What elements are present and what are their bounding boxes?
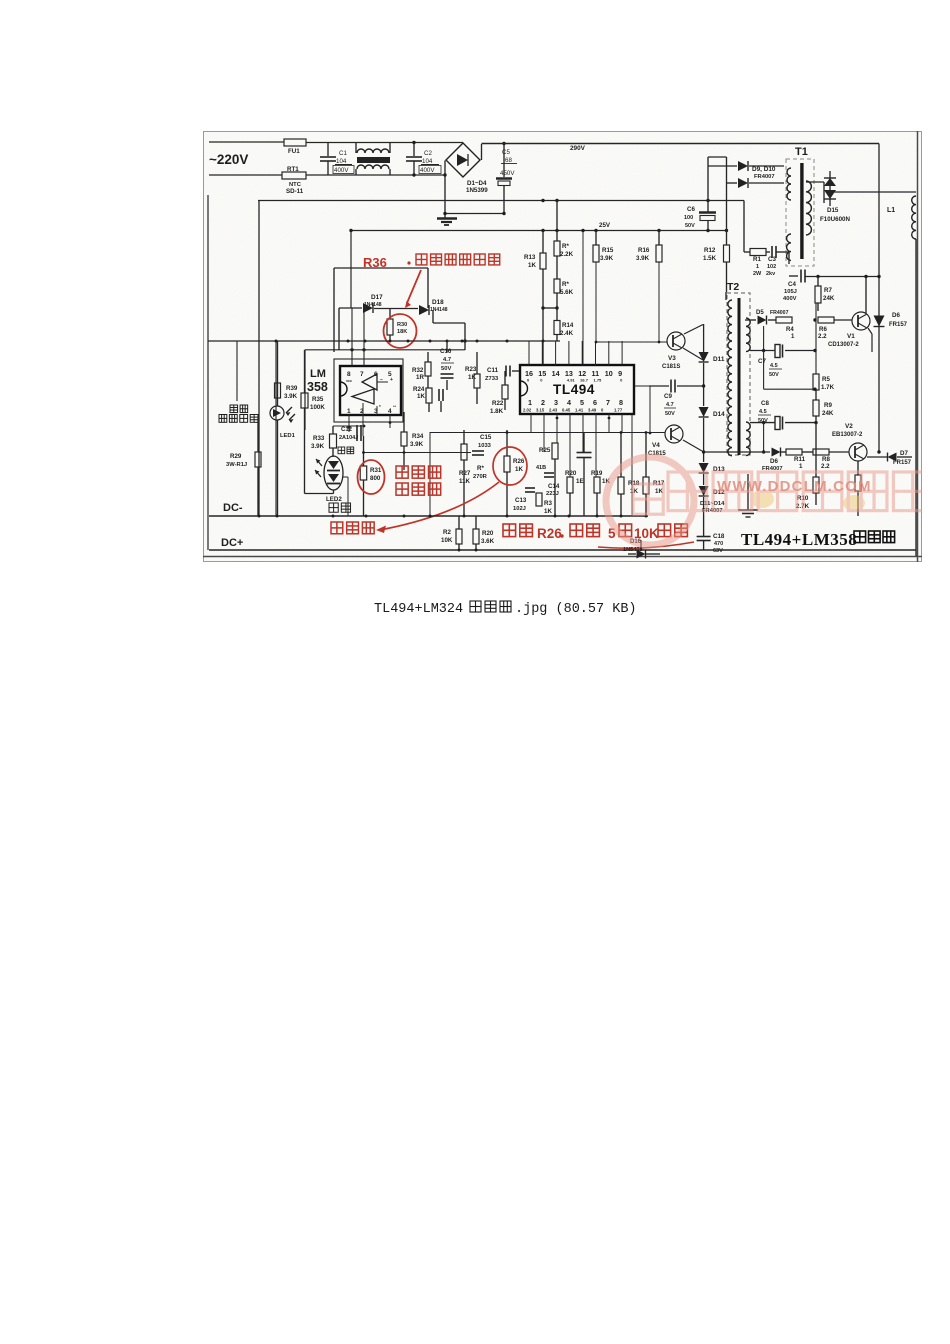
svg-text:C7: C7 [758, 358, 766, 365]
svg-text:RT1: RT1 [287, 166, 299, 173]
svg-text:D9, D10: D9, D10 [752, 166, 776, 173]
svg-text:D18: D18 [432, 299, 444, 306]
svg-text:R6: R6 [819, 326, 827, 333]
svg-text:R2: R2 [443, 529, 451, 536]
svg-text:TL494+LM324: TL494+LM324 [374, 602, 463, 617]
svg-text:.jpg (80.57 KB): .jpg (80.57 KB) [515, 602, 637, 617]
svg-text:R31: R31 [370, 467, 382, 474]
svg-text:C16: C16 [440, 348, 452, 355]
svg-text:1N5399: 1N5399 [466, 187, 488, 194]
svg-text:100K: 100K [310, 404, 325, 411]
svg-text:L1: L1 [887, 207, 895, 214]
svg-text:1: 1 [799, 463, 803, 470]
svg-text:50V: 50V [685, 223, 695, 229]
svg-text:DC-: DC- [223, 502, 243, 514]
svg-text:C4: C4 [788, 281, 796, 288]
svg-text:C6: C6 [687, 206, 695, 213]
svg-text:WWW.DDCLM.COM: WWW.DDCLM.COM [717, 478, 872, 495]
svg-text:D14: D14 [713, 411, 725, 418]
svg-text:DC+: DC+ [221, 537, 243, 549]
svg-text:1R: 1R [416, 374, 424, 381]
svg-text:R9: R9 [824, 402, 832, 409]
svg-text:R15: R15 [602, 247, 614, 254]
svg-text:R14: R14 [562, 322, 574, 329]
svg-text:R34: R34 [412, 433, 424, 440]
svg-text:R4: R4 [786, 327, 794, 333]
svg-text:18K: 18K [397, 329, 407, 335]
svg-text:3.15: 3.15 [536, 408, 545, 413]
svg-text:0.45: 0.45 [562, 408, 571, 413]
svg-text:1K: 1K [468, 374, 476, 381]
svg-text:800: 800 [370, 475, 381, 482]
svg-text:R26: R26 [513, 458, 525, 465]
svg-text:LM: LM [310, 368, 326, 380]
svg-text:1.77: 1.77 [614, 408, 623, 413]
svg-text:R25: R25 [539, 447, 551, 454]
svg-text:1K: 1K [515, 466, 523, 473]
svg-text:400V: 400V [783, 296, 797, 302]
svg-text:4.7: 4.7 [666, 402, 674, 408]
svg-text:3.9K: 3.9K [284, 393, 298, 400]
svg-text:41B: 41B [536, 465, 546, 471]
svg-text:R20: R20 [482, 530, 494, 537]
svg-text:R5: R5 [822, 376, 830, 383]
svg-text:TL494: TL494 [553, 382, 595, 397]
svg-text:D5: D5 [756, 310, 764, 316]
svg-text:R39: R39 [286, 385, 298, 392]
svg-text:1.75: 1.75 [594, 378, 603, 383]
svg-text:104: 104 [336, 158, 347, 165]
svg-text:1.5K: 1.5K [703, 255, 717, 262]
svg-text:4.7: 4.7 [443, 357, 451, 363]
svg-text:2.4K: 2.4K [560, 330, 574, 337]
svg-text:D11: D11 [713, 356, 725, 363]
svg-text:R16: R16 [638, 247, 650, 254]
svg-text:R13: R13 [524, 254, 536, 261]
svg-text:14: 14 [552, 369, 560, 378]
svg-text:4.5: 4.5 [759, 409, 767, 415]
svg-text:63V: 63V [713, 548, 723, 554]
svg-text:3.6K: 3.6K [481, 538, 495, 545]
svg-text:T1: T1 [795, 146, 808, 158]
svg-text:C9: C9 [664, 393, 672, 400]
svg-text:8: 8 [619, 398, 623, 407]
svg-text:R*: R* [477, 465, 484, 472]
svg-text:3: 3 [554, 398, 558, 407]
svg-text:C2: C2 [424, 150, 432, 157]
svg-text:2.2: 2.2 [818, 333, 827, 340]
svg-text:2.02: 2.02 [523, 408, 532, 413]
svg-text:R20: R20 [565, 470, 577, 477]
svg-text:5: 5 [580, 398, 584, 407]
svg-text:4.91: 4.91 [567, 378, 576, 383]
svg-text:C5: C5 [502, 149, 510, 156]
svg-text:TL494+LM358: TL494+LM358 [741, 530, 857, 549]
svg-text:R7: R7 [824, 287, 832, 294]
svg-text:1.41: 1.41 [575, 408, 584, 413]
svg-text:EB13007-2: EB13007-2 [832, 432, 863, 438]
svg-text:*: * [379, 404, 381, 409]
svg-text:R26: R26 [537, 526, 562, 541]
svg-text:450V: 450V [500, 170, 515, 177]
svg-text:3.9K: 3.9K [410, 441, 424, 448]
svg-text:FR157: FR157 [889, 322, 908, 328]
svg-text:C3: C3 [768, 256, 776, 263]
svg-text:2: 2 [541, 398, 545, 407]
svg-text:104: 104 [422, 158, 433, 165]
svg-text:400V: 400V [334, 167, 349, 174]
svg-text:2A104J: 2A104J [339, 435, 358, 441]
svg-text:R24: R24 [413, 386, 425, 393]
svg-text:270R: 270R [473, 474, 488, 480]
svg-text:24K: 24K [822, 410, 834, 417]
svg-text:6: 6 [593, 398, 597, 407]
svg-text:R*: R* [562, 281, 569, 288]
svg-text:D7: D7 [900, 450, 908, 457]
svg-text:F10U600N: F10U600N [820, 216, 850, 223]
svg-text:3W-R1J: 3W-R1J [226, 462, 247, 468]
svg-text:FR4007: FR4007 [770, 310, 789, 316]
svg-text:4: 4 [388, 408, 392, 415]
svg-text:C181S: C181S [662, 364, 680, 370]
svg-text:C18: C18 [713, 533, 725, 540]
svg-text:R19: R19 [591, 470, 603, 477]
svg-text:1K: 1K [544, 508, 552, 515]
svg-text:SD-11: SD-11 [286, 188, 304, 195]
svg-text:D1~D4: D1~D4 [467, 180, 487, 187]
svg-text:3.9K: 3.9K [600, 255, 614, 262]
svg-text:1K: 1K [417, 393, 425, 400]
svg-text:R27: R27 [459, 470, 471, 477]
svg-text:**: ** [393, 404, 397, 409]
svg-text:223J: 223J [546, 491, 559, 497]
svg-text:25V: 25V [599, 222, 611, 229]
svg-text:26.7: 26.7 [580, 378, 589, 383]
svg-text:2.2: 2.2 [821, 463, 830, 470]
svg-text:R12: R12 [704, 247, 716, 254]
svg-text:2kv: 2kv [766, 271, 776, 277]
svg-text:3.9K: 3.9K [636, 255, 650, 262]
svg-text:3.49: 3.49 [588, 408, 597, 413]
svg-text:11K: 11K [459, 478, 471, 485]
svg-text:10: 10 [605, 369, 613, 378]
svg-text:R*: R* [562, 243, 569, 250]
svg-text:C15: C15 [480, 434, 492, 441]
svg-text:C14: C14 [548, 483, 560, 490]
svg-text:358: 358 [307, 380, 328, 394]
svg-text:FR4007: FR4007 [754, 174, 775, 180]
svg-text:50V: 50V [441, 366, 451, 372]
svg-text:7: 7 [360, 371, 364, 378]
svg-text:R3: R3 [544, 500, 552, 507]
svg-text:R1: R1 [753, 256, 761, 263]
svg-text:470: 470 [714, 541, 723, 547]
svg-text:R32: R32 [412, 367, 424, 374]
svg-text:1.8K: 1.8K [490, 408, 504, 415]
svg-text:1033: 1033 [478, 443, 492, 449]
svg-text:R29: R29 [230, 453, 242, 460]
svg-text:R11: R11 [794, 456, 806, 463]
svg-text:400V: 400V [420, 167, 435, 174]
svg-text:R22: R22 [492, 400, 504, 407]
svg-text:68: 68 [505, 157, 512, 164]
svg-text:1K: 1K [528, 262, 536, 269]
svg-text:2W: 2W [753, 271, 762, 277]
svg-text:FU1: FU1 [288, 148, 300, 155]
svg-text:105J: 105J [784, 289, 797, 295]
svg-text:CD13007-2: CD13007-2 [828, 342, 859, 348]
svg-text:LED2: LED2 [326, 496, 342, 503]
svg-text:R8: R8 [822, 456, 830, 463]
svg-text:2.43: 2.43 [549, 408, 558, 413]
svg-text:100: 100 [684, 215, 693, 221]
svg-text:V4: V4 [652, 442, 660, 449]
svg-text:102J: 102J [513, 506, 526, 512]
svg-text:C13: C13 [515, 497, 527, 504]
svg-text:R33: R33 [313, 435, 325, 442]
svg-text:R23: R23 [465, 366, 477, 373]
svg-text:V1: V1 [847, 333, 855, 340]
svg-text:LED1: LED1 [280, 433, 296, 439]
svg-text:1: 1 [528, 398, 532, 407]
svg-text:D6: D6 [770, 458, 778, 465]
svg-text:R35: R35 [312, 396, 324, 403]
svg-text:FR157: FR157 [893, 460, 912, 466]
svg-text:4.5: 4.5 [770, 363, 778, 369]
svg-text:24K: 24K [823, 295, 835, 302]
svg-text:2.2K: 2.2K [560, 251, 574, 258]
svg-text:102: 102 [767, 264, 776, 270]
svg-text:V2: V2 [845, 423, 853, 430]
svg-text:Z733: Z733 [485, 376, 499, 382]
svg-text:50V: 50V [665, 411, 675, 417]
svg-text:C1: C1 [339, 150, 347, 157]
svg-text:~220V: ~220V [209, 152, 248, 167]
svg-text:7: 7 [606, 398, 610, 407]
svg-text:T2: T2 [727, 281, 739, 293]
svg-text:50V: 50V [769, 372, 779, 378]
svg-text:R30: R30 [397, 322, 407, 328]
svg-text:V3: V3 [668, 355, 676, 362]
svg-text:C11: C11 [487, 367, 499, 374]
svg-text:C8: C8 [761, 400, 769, 407]
svg-text:5.6K: 5.6K [560, 289, 574, 296]
svg-text:+: + [390, 377, 393, 383]
svg-text:3.9K: 3.9K [311, 443, 325, 450]
svg-text:vcc: vcc [346, 379, 352, 383]
svg-text:D15: D15 [827, 207, 839, 214]
svg-text:1: 1 [756, 264, 759, 270]
svg-text:8: 8 [347, 371, 351, 378]
svg-text:290V: 290V [570, 145, 586, 152]
svg-text:10K: 10K [441, 537, 453, 544]
svg-text:4: 4 [567, 398, 571, 407]
svg-text:1: 1 [347, 408, 351, 415]
svg-text:1E: 1E [576, 478, 584, 485]
svg-text:D6: D6 [892, 312, 900, 319]
svg-text:1.7K: 1.7K [821, 384, 835, 391]
svg-text:C12: C12 [341, 427, 353, 433]
svg-text:D17: D17 [371, 294, 383, 301]
